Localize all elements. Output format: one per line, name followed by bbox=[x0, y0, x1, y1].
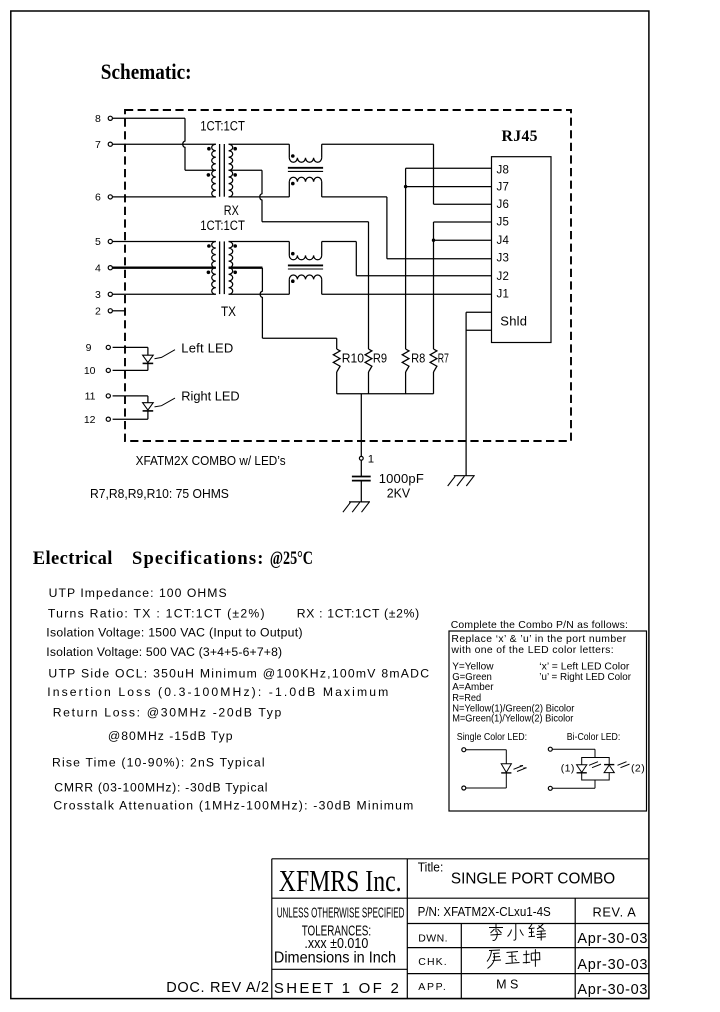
wire pin6 to RX primary bottom bbox=[113, 196, 216, 198]
pin 5 bbox=[95, 236, 112, 248]
svg-text:1CT:1CT: 1CT:1CT bbox=[200, 218, 245, 233]
wire J5-J4 tie to R7 bbox=[434, 222, 492, 349]
pin 9 bbox=[86, 342, 111, 354]
legend text replace bbox=[450, 634, 626, 656]
svg-text:J7: J7 bbox=[497, 182, 510, 194]
wire pin2 stub bbox=[113, 310, 126, 312]
svg-text:7: 7 bbox=[95, 139, 101, 151]
svg-text:RJ45: RJ45 bbox=[502, 128, 538, 145]
wire TX secondary center tap to R10 bbox=[229, 268, 337, 349]
transformer TX primary winding bbox=[212, 241, 216, 294]
wire TX secondary bottom to choke bbox=[229, 293, 290, 295]
ground (shield) bbox=[448, 476, 475, 486]
svg-text:Insertion Loss (0.3-100MHz): -: Insertion Loss (0.3-100MHz): -1.0dB Maxi… bbox=[47, 685, 388, 699]
wire pin7 to RX primary top bbox=[113, 143, 216, 145]
svg-text:9: 9 bbox=[86, 342, 92, 354]
wire pin12 from Right LED bbox=[113, 418, 148, 420]
svg-text:1CT:1CT: 1CT:1CT bbox=[200, 119, 245, 134]
svg-text:4: 4 bbox=[95, 262, 101, 274]
svg-text:@25°C: @25°C bbox=[270, 549, 313, 569]
svg-text:2KV: 2KV bbox=[387, 486, 411, 501]
connector RJ45 bbox=[492, 128, 552, 343]
svg-text:RX : 1CT:1CT (±2%): RX : 1CT:1CT (±2%) bbox=[297, 607, 420, 621]
svg-text:2: 2 bbox=[95, 305, 101, 317]
svg-text:3: 3 bbox=[95, 289, 101, 301]
bi-color LED symbol bbox=[548, 747, 644, 790]
svg-text:(2): (2) bbox=[631, 763, 645, 775]
svg-text:6: 6 bbox=[95, 192, 101, 204]
LED left bbox=[143, 355, 154, 370]
svg-text:R9: R9 bbox=[373, 350, 387, 365]
dashed module boundary bbox=[125, 110, 571, 441]
wire RX choke top to J6 bbox=[322, 144, 434, 204]
ground (capacitor) bbox=[343, 502, 370, 512]
wire TX choke bottom to J1 bbox=[322, 293, 492, 295]
svg-text:Bi-Color LED:: Bi-Color LED: bbox=[567, 732, 621, 743]
transformer RX secondary winding bbox=[229, 144, 233, 197]
resistor R7 bbox=[430, 349, 449, 394]
svg-text:5: 5 bbox=[95, 236, 101, 248]
svg-text:Schematic:: Schematic: bbox=[101, 60, 192, 84]
wire pin3 to TX primary bottom bbox=[113, 293, 216, 295]
svg-text:Right LED: Right LED bbox=[181, 389, 239, 404]
svg-text:R10: R10 bbox=[342, 350, 364, 365]
svg-text:Specifications:: Specifications: bbox=[132, 549, 263, 569]
wire RX secondary bottom to choke bbox=[229, 196, 290, 198]
wire rail to node 1 bbox=[360, 394, 362, 457]
svg-text:‘x’ = Left LED Color: ‘x’ = Left LED Color bbox=[539, 662, 630, 673]
svg-text:Apr-30-03: Apr-30-03 bbox=[577, 982, 647, 998]
svg-text:R8: R8 bbox=[411, 350, 425, 365]
svg-text:J2: J2 bbox=[497, 271, 510, 283]
wire pin9 to Left LED bbox=[113, 347, 148, 355]
svg-text:1: 1 bbox=[368, 453, 374, 465]
svg-text:Electrical: Electrical bbox=[33, 549, 113, 569]
combo legend box bbox=[449, 631, 647, 811]
pin 12 bbox=[84, 414, 111, 426]
svg-text:J5: J5 bbox=[497, 217, 510, 229]
svg-text:Complete the Combo P/N as foll: Complete the Combo P/N as follows: bbox=[451, 620, 628, 631]
svg-text:Return Loss: @30MHz -20dB Typ: Return Loss: @30MHz -20dB Typ bbox=[53, 706, 282, 720]
svg-text:R7: R7 bbox=[438, 350, 449, 365]
wire pin11 to Right LED bbox=[113, 396, 148, 403]
junction J7/R8 bbox=[404, 185, 407, 188]
svg-text:R=Red: R=Red bbox=[452, 693, 481, 704]
pin 11 bbox=[85, 391, 111, 403]
choke L2 (TX common-mode) bbox=[288, 242, 323, 295]
signature CHK (Chinese) bbox=[487, 949, 540, 968]
svg-text:Isolation Voltage: 1500 VAC (I: Isolation Voltage: 1500 VAC (Input to Ou… bbox=[46, 626, 302, 640]
svg-text:DOC. REV A/2: DOC. REV A/2 bbox=[166, 980, 269, 996]
wire RX secondary center tap to R9 bbox=[229, 170, 369, 349]
LED right bbox=[143, 403, 154, 420]
svg-text:1000pF: 1000pF bbox=[379, 471, 424, 486]
transformer TX core bbox=[220, 241, 225, 294]
wire pin10 from Left LED bbox=[113, 369, 148, 371]
junction J4/R7 bbox=[432, 239, 435, 242]
svg-text:SHEET 1 OF 2: SHEET 1 OF 2 bbox=[274, 980, 399, 997]
svg-text:11: 11 bbox=[85, 391, 96, 403]
svg-text:SINGLE PORT COMBO: SINGLE PORT COMBO bbox=[451, 871, 615, 888]
svg-text:Y=Yellow: Y=Yellow bbox=[452, 662, 494, 673]
pin 10 bbox=[84, 365, 111, 377]
svg-text:UTP Impedance: 100 OHMS: UTP Impedance: 100 OHMS bbox=[49, 586, 227, 600]
wire pin5 to TX primary top bbox=[113, 241, 216, 243]
signature DWN (Chinese) bbox=[489, 924, 546, 941]
label Right LED bbox=[155, 389, 240, 407]
wire Shld loop bbox=[466, 312, 491, 475]
svg-text:Isolation Voltage: 500 VAC (3+: Isolation Voltage: 500 VAC (3+4+5-6+7+8) bbox=[46, 645, 282, 659]
svg-text:(1): (1) bbox=[561, 763, 575, 775]
svg-text:A=Amber: A=Amber bbox=[452, 682, 494, 693]
svg-text:12: 12 bbox=[84, 414, 96, 426]
svg-text:UTP Side OCL: 350uH Minimum @1: UTP Side OCL: 350uH Minimum @100KHz,100m… bbox=[48, 667, 429, 681]
resistor R10 bbox=[333, 349, 364, 394]
svg-text:’u’ = Right LED Color: ’u’ = Right LED Color bbox=[539, 672, 631, 683]
title block grid bbox=[272, 859, 649, 999]
svg-text:Replace ‘x’ & ’u’ in the port: Replace ‘x’ & ’u’ in the port number bbox=[451, 634, 626, 645]
svg-text:DWN.: DWN. bbox=[418, 932, 447, 944]
svg-text:TX: TX bbox=[221, 304, 236, 319]
svg-text:CMRR (03-100MHz): -30dB Typica: CMRR (03-100MHz): -30dB Typical bbox=[54, 780, 267, 794]
transformer RX primary winding bbox=[212, 144, 216, 197]
pin 8 bbox=[95, 113, 112, 125]
label Left LED bbox=[155, 340, 234, 358]
transformer TX secondary winding bbox=[229, 241, 233, 294]
svg-text:XFATM2X COMBO w/ LED’s: XFATM2X COMBO w/ LED’s bbox=[136, 453, 286, 468]
wire RX choke bottom to J3 bbox=[322, 197, 492, 259]
svg-text:Rise Time (10-90%): 2nS Typica: Rise Time (10-90%): 2nS Typical bbox=[52, 755, 265, 769]
single LED symbol bbox=[462, 748, 527, 790]
wire J8-J7 tie to R8 bbox=[406, 168, 492, 349]
svg-text:REV. A: REV. A bbox=[593, 905, 637, 920]
pin 2 bbox=[95, 305, 112, 317]
svg-text:@80MHz -15dB Typ: @80MHz -15dB Typ bbox=[108, 729, 233, 743]
svg-text:8: 8 bbox=[95, 113, 101, 125]
svg-text:UNLESS OTHERWISE SPECIFIED: UNLESS OTHERWISE SPECIFIED bbox=[277, 905, 405, 922]
svg-text:Apr-30-03: Apr-30-03 bbox=[577, 957, 647, 973]
svg-text:J3: J3 bbox=[497, 253, 510, 265]
svg-text:XFMRS Inc.: XFMRS Inc. bbox=[279, 863, 402, 898]
pin 7 bbox=[95, 139, 112, 151]
resistor R9 bbox=[365, 349, 387, 394]
pin 3 bbox=[95, 289, 112, 301]
svg-text:Apr-30-03: Apr-30-03 bbox=[577, 931, 647, 947]
svg-text:M=Green(1)/Yellow(2) Bicolor: M=Green(1)/Yellow(2) Bicolor bbox=[452, 714, 574, 725]
svg-text:Turns Ratio: TX : 1CT:1CT (±2%: Turns Ratio: TX : 1CT:1CT (±2%) bbox=[48, 607, 265, 621]
svg-text:Shld: Shld bbox=[500, 313, 527, 328]
node 1 bbox=[359, 453, 374, 465]
pin 4 bbox=[95, 262, 112, 274]
svg-text:Left LED: Left LED bbox=[181, 340, 233, 355]
wire pin8 to RX primary center tap bbox=[113, 118, 216, 170]
svg-text:J4: J4 bbox=[497, 235, 510, 247]
svg-text:J6: J6 bbox=[497, 199, 510, 211]
transformer RX core bbox=[220, 144, 225, 197]
resistor R8 bbox=[402, 349, 425, 394]
choke L1 (RX common-mode) bbox=[288, 144, 323, 197]
svg-text:RX: RX bbox=[224, 203, 239, 218]
svg-text:P/N: XFATM2X-CLxu1-4S: P/N: XFATM2X-CLxu1-4S bbox=[418, 904, 551, 919]
RX polarity dots bbox=[207, 147, 237, 177]
svg-text:Single Color LED:: Single Color LED: bbox=[457, 732, 527, 743]
TX polarity dots bbox=[207, 244, 237, 274]
svg-text:10: 10 bbox=[84, 365, 96, 377]
pin 6 bbox=[95, 192, 112, 204]
wire TX secondary top to choke bbox=[229, 241, 290, 243]
svg-text:R7,R8,R9,R10: 75 OHMS: R7,R8,R9,R10: 75 OHMS bbox=[90, 486, 229, 501]
wire J6 bbox=[434, 203, 492, 205]
svg-text:J1: J1 bbox=[497, 289, 510, 301]
wire TX choke top to J2 bbox=[322, 242, 492, 276]
capacitor C1 1000pF 2KV bbox=[352, 460, 424, 502]
svg-text:CHK.: CHK. bbox=[418, 956, 446, 968]
wire pin4 to TX primary center tap (bold) bbox=[113, 267, 216, 269]
svg-text:Crosstalk Attenuation (1MHz-10: Crosstalk Attenuation (1MHz-100MHz): -30… bbox=[53, 799, 413, 813]
svg-text:Dimensions in Inch: Dimensions in Inch bbox=[274, 949, 396, 966]
wire resistor bottom rail bbox=[337, 393, 434, 395]
wire RX secondary top to choke bbox=[229, 143, 290, 145]
heading Electrical Specifications bbox=[33, 549, 313, 569]
svg-text:J8: J8 bbox=[497, 164, 510, 176]
svg-text:Title:: Title: bbox=[418, 860, 444, 875]
svg-text:with one of the LED color lett: with one of the LED color letters: bbox=[450, 645, 613, 656]
